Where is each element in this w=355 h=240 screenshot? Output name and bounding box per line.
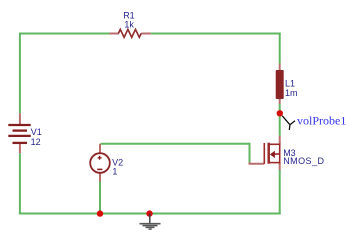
battery V1 plate short upper bbox=[13, 129, 28, 131]
wire gate branch vertical bbox=[249, 143, 251, 164]
ground bar 3 bbox=[146, 226, 155, 228]
battery V1 plate short bottom bbox=[13, 142, 28, 144]
transistor M3 source lead bbox=[279, 163, 281, 170]
ground bar 4 bbox=[149, 228, 152, 230]
wire bottom rail bbox=[19, 213, 281, 215]
wire V2 bottom to rail bbox=[99, 182, 101, 215]
battery V1 lead top bbox=[19, 113, 21, 124]
battery V1 plate long top bbox=[8, 124, 30, 126]
svg-text:volProbe1: volProbe1 bbox=[297, 114, 346, 128]
svg-text:12: 12 bbox=[31, 137, 41, 147]
transistor M3 bulk arrow bbox=[270, 151, 275, 158]
transistor M3 drain lead bbox=[279, 136, 281, 145]
inductor L1 body bbox=[276, 70, 284, 99]
ground bar 1 bbox=[140, 223, 161, 225]
node junction dot ground bbox=[146, 210, 152, 216]
wire right top to L1 bbox=[279, 33, 281, 64]
wire right L1 to probe node bbox=[279, 104, 281, 113]
battery V1 lead bottom bbox=[19, 144, 21, 153]
svg-text:1: 1 bbox=[112, 166, 117, 176]
wire top from V1 to R1 bbox=[20, 33, 110, 35]
source V2 lead top bbox=[99, 144, 101, 154]
inductor L1 lead top bbox=[279, 64, 281, 71]
svg-text:V1: V1 bbox=[31, 127, 42, 137]
transistor M3 right vertical bbox=[279, 144, 281, 164]
resistor R1 lead left bbox=[110, 33, 120, 35]
transistor M3 channel bar bbox=[267, 143, 270, 164]
wire M3 source to bottom rail bbox=[279, 170, 281, 215]
transistor M3 source stub bbox=[269, 162, 280, 164]
resistor R1 zigzag bbox=[118, 29, 141, 37]
transistor M3 gate bar bbox=[263, 143, 265, 164]
source V2 lead bottom bbox=[99, 173, 101, 182]
source V2 plus sign bbox=[98, 156, 102, 160]
inductor L1 lead bottom bbox=[279, 99, 281, 104]
wire V2 top horizontal to gate branch bbox=[101, 143, 250, 145]
svg-text:1m: 1m bbox=[285, 88, 298, 98]
node junction dot V2 bottom bbox=[97, 210, 103, 216]
svg-text:NMOS_D: NMOS_D bbox=[283, 156, 324, 166]
svg-text:1k: 1k bbox=[124, 20, 134, 30]
source V2 minus sign bbox=[97, 168, 102, 170]
wire right probe node to M3 drain lead bbox=[279, 113, 281, 136]
ground bar 2 bbox=[143, 225, 158, 227]
node junction dot at probe bbox=[277, 110, 283, 116]
wire top from R1 to drain node corner bbox=[151, 33, 281, 35]
transistor M3 bulk stub bbox=[275, 153, 280, 155]
transistor M3 drain stub bbox=[269, 143, 280, 145]
battery V1 plate long lower bbox=[8, 135, 30, 137]
wire left lower V1 to bottom bbox=[19, 153, 21, 214]
probe volProbe1 symbol bbox=[282, 116, 295, 130]
wire left upper V1 to top bbox=[19, 33, 21, 114]
ground stub bbox=[149, 214, 151, 223]
source V2 circle bbox=[90, 153, 110, 173]
transistor M3 gate lead bbox=[250, 162, 265, 163]
resistor R1 lead right bbox=[141, 33, 151, 35]
